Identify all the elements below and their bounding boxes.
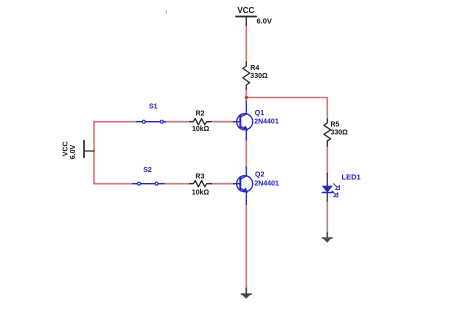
svg-text:Q1: Q1: [255, 110, 264, 117]
svg-text:R4: R4: [250, 65, 259, 72]
svg-text:VCC: VCC: [62, 141, 69, 156]
svg-text:R2: R2: [196, 110, 205, 117]
svg-text:330Ω: 330Ω: [331, 130, 349, 137]
svg-text:S1: S1: [149, 104, 158, 111]
svg-text:2N4401: 2N4401: [254, 119, 279, 126]
svg-text:R3: R3: [195, 173, 204, 180]
svg-text:10kΩ: 10kΩ: [192, 189, 210, 196]
svg-text:2N4401: 2N4401: [254, 181, 279, 188]
svg-text:10kΩ: 10kΩ: [192, 126, 210, 133]
svg-text:330Ω: 330Ω: [250, 73, 268, 80]
svg-text:R5: R5: [331, 121, 340, 128]
svg-text:LED1: LED1: [342, 173, 361, 182]
svg-text:Q2: Q2: [255, 171, 264, 178]
svg-text:S2: S2: [143, 167, 152, 174]
svg-text:VCC: VCC: [237, 6, 254, 15]
svg-text:6.0V: 6.0V: [70, 144, 77, 159]
svg-text:6.0V: 6.0V: [257, 17, 272, 26]
